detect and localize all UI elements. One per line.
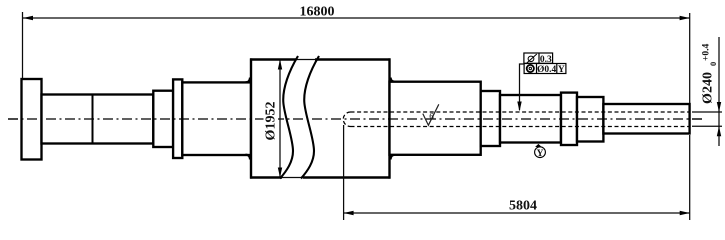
- fillet C top to D: [246, 78, 251, 83]
- surface finish symbol (check with 6): [423, 104, 439, 125]
- section G: [500, 95, 561, 143]
- big section D body: [251, 60, 390, 178]
- dimension 5804 extension line right: [689, 135, 691, 220]
- tolerance leader line: [520, 64, 525, 110]
- big section D top line (thin bridge across break): [295, 59, 316, 61]
- svg-text:+0.4: +0.4: [702, 43, 712, 61]
- tolerance frame row2 box: [524, 64, 566, 74]
- big section D bottom line (thin bridge across break): [281, 177, 304, 179]
- break curve left: [280, 56, 298, 179]
- dimension Ø1952 line (vertical): [279, 60, 281, 178]
- big section D right edge: [388, 58, 390, 178]
- tolerance frame row1 runout symbol: [527, 54, 537, 63]
- tolerance frame row2 divider 1: [536, 64, 538, 74]
- collar F: [481, 91, 500, 146]
- collar B2: [153, 91, 173, 147]
- svg-text:5804: 5804: [509, 199, 537, 214]
- big section D top line (thick parts): [250, 58, 391, 60]
- dimension 5804 right arrow: [680, 211, 690, 215]
- end section J: [603, 104, 689, 134]
- datum Y stem: [539, 146, 540, 149]
- dimension Ø240 line (vertical): [718, 37, 720, 146]
- svg-text:Ø0.4: Ø0.4: [537, 65, 557, 75]
- collar B3 (tall): [173, 79, 182, 158]
- flange A (left end): [22, 79, 42, 160]
- dimension Ø1952 top arrow: [278, 60, 282, 70]
- fillet E top to D: [391, 78, 395, 82]
- datum Y triangle: [535, 144, 542, 147]
- dimension 5804 extension line left: [343, 125, 345, 220]
- section C: [182, 82, 251, 155]
- datum Y circle: [535, 147, 546, 158]
- centerline overlay (through part): [8, 118, 702, 120]
- centerline: [8, 118, 702, 120]
- svg-text:16800: 16800: [300, 4, 335, 19]
- tolerance leader arrow: [517, 102, 521, 112]
- dimension 5804 line: [344, 212, 690, 214]
- central bore hidden outline (dashed): [343, 112, 350, 127]
- big section D left edge: [250, 58, 252, 178]
- bore bottom dashed line: [351, 126, 690, 128]
- dimension 16800 extension line right: [689, 13, 691, 103]
- break curve right: [301, 56, 319, 179]
- section E: [390, 82, 481, 155]
- dimension 16800 line: [23, 17, 690, 19]
- dimension 16800 extension line left: [22, 12, 24, 78]
- shaft section B: [42, 95, 154, 144]
- fillet E bottom to D: [391, 155, 395, 160]
- tolerance frame row2 divider 2: [556, 64, 558, 74]
- svg-text:Y: Y: [537, 149, 544, 159]
- bore top dashed line: [351, 111, 690, 113]
- svg-text:0: 0: [708, 62, 718, 66]
- tolerance frame row1 box: [524, 53, 553, 63]
- dimension Ø1952 bottom arrow: [278, 168, 282, 178]
- dimension Ø240 extension line bottom: [692, 125, 722, 127]
- dimension Ø1952 text background: [264, 99, 279, 144]
- dimension Ø240 lower arrow: [717, 126, 721, 136]
- svg-text:Y: Y: [558, 65, 565, 75]
- dimension 16800 left arrow: [23, 16, 33, 20]
- tolerance frame row2 concentricity symbol: [527, 65, 534, 72]
- dimension Ø240 extension line top: [692, 111, 722, 113]
- dimension 5804 left arrow: [344, 211, 354, 215]
- section I: [577, 97, 603, 142]
- dimension 16800 right arrow: [680, 16, 690, 20]
- collar H: [561, 93, 577, 145]
- big section D bottom line (thick parts): [250, 176, 391, 178]
- svg-text:Ø1952: Ø1952: [264, 102, 279, 141]
- svg-text:Ø240: Ø240: [701, 72, 716, 104]
- fillet C bottom to D: [246, 155, 251, 160]
- tolerance frame row1 divider: [538, 53, 540, 63]
- dimension Ø240 upper arrow: [717, 102, 721, 112]
- junction line in section B: [92, 95, 94, 144]
- svg-text:6: 6: [429, 112, 434, 122]
